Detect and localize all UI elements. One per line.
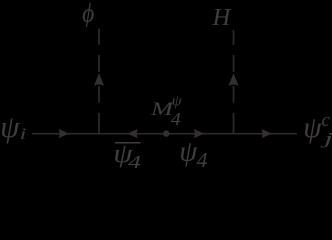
svg-text:4: 4 — [128, 152, 141, 171]
svg-text:c: c — [322, 110, 331, 131]
svg-text:i: i — [20, 126, 27, 143]
svg-text:ψ: ψ — [172, 93, 183, 109]
svg-text:4: 4 — [171, 109, 181, 129]
svg-text:ψ: ψ — [179, 135, 198, 167]
svg-text:ψ: ψ — [303, 112, 322, 144]
svg-text:H: H — [212, 4, 232, 31]
svg-text:ϕ: ϕ — [82, 0, 94, 28]
svg-text:4: 4 — [197, 148, 209, 171]
svg-text:ψ: ψ — [0, 109, 20, 144]
